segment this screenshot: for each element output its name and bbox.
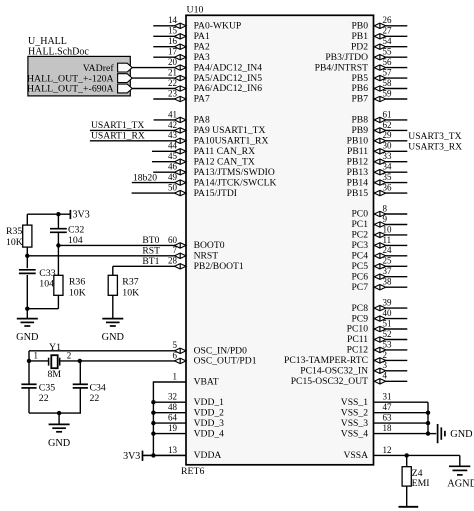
svg-text:23: 23	[168, 88, 178, 98]
svg-text:33: 33	[383, 151, 393, 161]
svg-text:35: 35	[383, 172, 393, 182]
svg-text:25: 25	[383, 256, 393, 266]
svg-text:1: 1	[34, 350, 39, 360]
svg-text:22: 22	[168, 78, 177, 88]
svg-text:VDD_2: VDD_2	[194, 407, 225, 418]
svg-text:28: 28	[168, 256, 178, 266]
svg-text:HALL_OUT_+-120A: HALL_OUT_+-120A	[27, 73, 114, 84]
svg-text:10K: 10K	[69, 287, 86, 298]
svg-text:EMI: EMI	[412, 478, 430, 489]
svg-text:PA1: PA1	[194, 31, 210, 42]
svg-text:PA10USART1_RX: PA10USART1_RX	[194, 136, 269, 147]
svg-text:PC15-OSC32_OUT: PC15-OSC32_OUT	[291, 376, 368, 387]
svg-text:104: 104	[68, 235, 83, 246]
svg-text:PC9: PC9	[351, 313, 368, 324]
svg-text:16: 16	[168, 36, 178, 46]
svg-text:10K: 10K	[122, 287, 139, 298]
svg-text:GND: GND	[102, 332, 125, 343]
svg-text:PB0: PB0	[351, 21, 368, 32]
svg-text:VDDA: VDDA	[194, 450, 222, 461]
svg-text:64: 64	[168, 413, 178, 423]
svg-text:Y1: Y1	[49, 342, 61, 353]
svg-text:U10: U10	[187, 4, 204, 15]
svg-text:PB11: PB11	[347, 146, 368, 157]
svg-text:PA3: PA3	[194, 52, 210, 63]
svg-text:61: 61	[383, 109, 392, 119]
svg-text:52: 52	[383, 329, 392, 339]
svg-text:VBAT: VBAT	[194, 377, 219, 388]
svg-text:6: 6	[173, 350, 178, 360]
svg-text:43: 43	[168, 130, 178, 140]
svg-text:PA0-WKUP: PA0-WKUP	[194, 21, 242, 32]
svg-text:10K: 10K	[6, 237, 23, 248]
svg-text:38: 38	[383, 277, 393, 287]
svg-text:46: 46	[168, 162, 178, 172]
svg-text:PA4/ADC12_IN4: PA4/ADC12_IN4	[194, 62, 263, 73]
svg-text:9: 9	[383, 214, 388, 224]
svg-text:PB14: PB14	[347, 177, 369, 188]
svg-text:PA14/JTCK/SWCLK: PA14/JTCK/SWCLK	[194, 177, 277, 188]
svg-text:PC12: PC12	[347, 345, 369, 356]
svg-text:40: 40	[383, 308, 393, 318]
svg-text:RET6: RET6	[181, 466, 205, 477]
svg-text:VSSA: VSSA	[343, 450, 368, 461]
svg-text:PA12 CAN_TX: PA12 CAN_TX	[194, 156, 255, 167]
svg-text:5: 5	[173, 340, 178, 350]
svg-text:27: 27	[383, 26, 393, 36]
svg-text:57: 57	[383, 68, 393, 78]
svg-text:VDD_1: VDD_1	[194, 397, 225, 408]
svg-text:30: 30	[383, 141, 393, 151]
svg-text:PB4/JNTRST: PB4/JNTRST	[315, 62, 368, 73]
svg-text:PC6: PC6	[351, 271, 368, 282]
svg-text:PC14-OSC32_IN: PC14-OSC32_IN	[300, 366, 368, 377]
svg-text:C34: C34	[90, 383, 106, 394]
svg-text:8M: 8M	[48, 369, 62, 380]
svg-text:PC2: PC2	[351, 230, 368, 241]
svg-text:NRST: NRST	[194, 251, 219, 262]
svg-text:41: 41	[168, 109, 177, 119]
svg-text:HALL_OUT_+-690A: HALL_OUT_+-690A	[27, 84, 114, 95]
svg-text:VSS_4: VSS_4	[341, 428, 368, 439]
svg-text:10: 10	[383, 224, 393, 234]
svg-text:PB12: PB12	[347, 156, 369, 167]
svg-text:62: 62	[383, 120, 392, 130]
svg-text:PB5: PB5	[351, 73, 368, 84]
svg-text:C35: C35	[39, 383, 55, 394]
svg-text:PA5/ADC12_IN5: PA5/ADC12_IN5	[194, 73, 263, 84]
svg-text:63: 63	[383, 413, 393, 423]
svg-text:PB8: PB8	[351, 115, 368, 126]
svg-text:PA6/ADC12_IN6: PA6/ADC12_IN6	[194, 83, 263, 94]
svg-text:54: 54	[383, 36, 393, 46]
svg-text:11: 11	[383, 235, 392, 245]
svg-text:PB9: PB9	[351, 125, 368, 136]
svg-text:PC5: PC5	[351, 261, 368, 272]
svg-text:36: 36	[383, 183, 393, 193]
svg-text:3V3: 3V3	[123, 451, 140, 462]
svg-text:51: 51	[383, 318, 392, 328]
svg-text:4: 4	[383, 371, 388, 381]
svg-text:PB3/JTDO: PB3/JTDO	[325, 52, 368, 63]
svg-text:31: 31	[383, 392, 392, 402]
svg-text:PC8: PC8	[351, 303, 368, 314]
svg-text:13: 13	[168, 445, 178, 455]
svg-text:AGND: AGND	[447, 478, 474, 489]
svg-text:3: 3	[383, 360, 388, 370]
svg-text:49: 49	[168, 172, 178, 182]
svg-text:PC11: PC11	[347, 334, 368, 345]
svg-text:R37: R37	[122, 277, 138, 288]
svg-text:PA15/JTDI: PA15/JTDI	[194, 188, 237, 199]
svg-text:2: 2	[383, 350, 388, 360]
svg-text:22: 22	[39, 393, 49, 404]
svg-text:PC1: PC1	[351, 219, 368, 230]
svg-text:50: 50	[168, 183, 178, 193]
svg-text:26: 26	[383, 15, 393, 25]
svg-text:8: 8	[383, 203, 388, 213]
svg-text:GND: GND	[450, 429, 473, 440]
svg-text:PA8: PA8	[194, 115, 210, 126]
svg-text:53: 53	[383, 339, 393, 349]
svg-text:PC13-TAMPER-RTC: PC13-TAMPER-RTC	[284, 355, 368, 366]
svg-text:PB10: PB10	[347, 136, 369, 147]
svg-text:BOOT0: BOOT0	[194, 240, 225, 251]
svg-text:15: 15	[168, 26, 178, 36]
svg-text:C33: C33	[39, 268, 55, 279]
svg-text:21: 21	[168, 68, 177, 78]
svg-text:PB13: PB13	[347, 167, 369, 178]
svg-text:USART3_RX: USART3_RX	[408, 141, 462, 152]
svg-text:34: 34	[383, 162, 393, 172]
svg-text:32: 32	[168, 392, 177, 402]
svg-text:VSS_1: VSS_1	[341, 397, 368, 408]
svg-text:VSS_3: VSS_3	[341, 418, 368, 429]
svg-text:104: 104	[39, 279, 54, 290]
svg-text:HALL.SchDoc: HALL.SchDoc	[28, 47, 89, 58]
svg-text:PA13/JTMS/SWDIO: PA13/JTMS/SWDIO	[194, 167, 275, 178]
svg-text:PA9 USART1_TX: PA9 USART1_TX	[194, 125, 266, 136]
svg-text:59: 59	[383, 88, 393, 98]
svg-text:VSS_2: VSS_2	[341, 407, 368, 418]
svg-text:42: 42	[168, 120, 177, 130]
svg-text:RST: RST	[142, 246, 160, 257]
svg-text:17: 17	[168, 47, 178, 57]
svg-text:VDD_3: VDD_3	[194, 418, 225, 429]
svg-text:PA2: PA2	[194, 41, 210, 52]
svg-text:44: 44	[168, 141, 178, 151]
svg-text:PA7: PA7	[194, 94, 210, 105]
svg-text:BT1: BT1	[142, 256, 159, 267]
svg-text:U_HALL: U_HALL	[28, 36, 67, 47]
svg-text:47: 47	[383, 402, 393, 412]
svg-text:BT0: BT0	[142, 235, 159, 246]
svg-text:45: 45	[168, 151, 178, 161]
svg-text:OSC_OUT/PD1: OSC_OUT/PD1	[194, 356, 257, 367]
svg-text:USART1_RX: USART1_RX	[91, 131, 145, 142]
svg-text:GND: GND	[48, 438, 71, 449]
svg-text:VDD_4: VDD_4	[194, 428, 225, 439]
svg-text:7: 7	[173, 245, 178, 255]
svg-text:PC0: PC0	[351, 209, 368, 220]
svg-text:PB2/BOOT1: PB2/BOOT1	[194, 261, 244, 272]
svg-text:VADref: VADref	[83, 63, 115, 74]
svg-text:GND: GND	[16, 332, 39, 343]
svg-text:PC7: PC7	[351, 282, 368, 293]
svg-text:1: 1	[173, 371, 178, 381]
svg-text:PC4: PC4	[351, 251, 368, 262]
svg-text:39: 39	[383, 298, 393, 308]
svg-text:PB15: PB15	[347, 188, 369, 199]
svg-text:20: 20	[168, 57, 178, 67]
svg-text:18b20: 18b20	[133, 172, 157, 183]
svg-text:19: 19	[168, 423, 178, 433]
svg-text:48: 48	[168, 402, 178, 412]
svg-text:55: 55	[383, 47, 393, 57]
svg-text:PC3: PC3	[351, 240, 368, 251]
svg-text:2: 2	[67, 350, 72, 360]
svg-text:USART1_TX: USART1_TX	[91, 120, 144, 131]
svg-text:29: 29	[383, 130, 393, 140]
svg-text:R35: R35	[6, 226, 22, 237]
svg-text:60: 60	[168, 235, 178, 245]
svg-text:PD2: PD2	[351, 41, 368, 52]
svg-text:24: 24	[383, 245, 393, 255]
svg-text:14: 14	[168, 15, 178, 25]
svg-text:PB6: PB6	[351, 83, 368, 94]
svg-text:PB7: PB7	[351, 94, 368, 105]
svg-text:3V3: 3V3	[73, 210, 90, 221]
svg-text:R36: R36	[69, 277, 85, 288]
svg-text:PA11 CAN_RX: PA11 CAN_RX	[194, 146, 255, 157]
svg-text:58: 58	[383, 78, 393, 88]
svg-text:56: 56	[383, 57, 393, 67]
svg-text:22: 22	[90, 393, 100, 404]
svg-text:18: 18	[383, 423, 393, 433]
svg-text:PC10: PC10	[347, 324, 369, 335]
svg-text:USART3_TX: USART3_TX	[408, 131, 461, 142]
svg-text:PB1: PB1	[351, 31, 368, 42]
svg-text:12: 12	[383, 445, 392, 455]
svg-text:C32: C32	[68, 224, 84, 235]
svg-text:37: 37	[383, 266, 393, 276]
